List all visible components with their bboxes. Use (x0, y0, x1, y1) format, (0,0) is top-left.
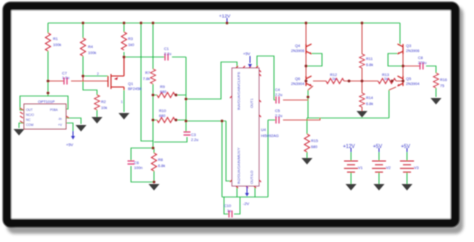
wire IC pin row A (186, 62, 237, 99)
svg-text:R14: R14 (366, 96, 373, 100)
ground below R16 (431, 98, 442, 105)
resistor R9 (157, 92, 175, 97)
wire +12V rail (48, 22, 400, 24)
wire OPT101 -In to ground (66, 118, 81, 124)
svg-text:1k: 1k (384, 77, 388, 81)
svg-text:220u: 220u (418, 61, 426, 65)
junction rail-x141 (140, 22, 143, 25)
capacitor C8 (420, 63, 423, 70)
junction R9 right (175, 94, 178, 97)
wire R4 column (82, 23, 84, 76)
wire R3 column (123, 23, 125, 57)
svg-text:1k: 1k (332, 77, 336, 81)
svg-text:IN2/GUA/GAIN/MUX/Y: IN2/GUA/GAIN/MUX/Y (237, 147, 241, 184)
svg-text:OPT101P: OPT101P (38, 100, 55, 104)
resistor R15 (304, 134, 309, 152)
wire OPT101 right pin1 up (48, 93, 68, 109)
resistor R2 (94, 95, 99, 110)
ground OPT101 COM (14, 129, 25, 136)
wire ladder column x186 (185, 57, 187, 132)
svg-text:R4: R4 (88, 45, 93, 49)
junction rail-Q4 (305, 22, 308, 25)
svg-text:C5: C5 (275, 109, 280, 113)
junction R10-C3 node (185, 120, 188, 123)
capacitor C5 (276, 117, 279, 124)
junction OPT101 bias node (47, 92, 50, 95)
junction R10 right (175, 119, 178, 122)
wire C3 bottom to loop (154, 137, 187, 142)
IC U4 (230, 66, 261, 188)
wire R9 row (153, 94, 186, 96)
svg-text:Q6: Q6 (295, 77, 300, 81)
svg-text:OUT: OUT (26, 108, 33, 112)
wire R15 stub (306, 118, 308, 158)
transistor Q5 (398, 76, 404, 86)
wire Q5 emitter down (388, 90, 390, 118)
svg-text:OUT1: OUT1 (250, 98, 254, 108)
wire C5 left (268, 120, 276, 197)
svg-text:6.8k: 6.8k (158, 164, 165, 168)
svg-text:+12V: +12V (219, 14, 231, 20)
svg-text:R8: R8 (158, 158, 163, 162)
svg-text:Q3: Q3 (406, 44, 411, 48)
junction R9 right bus (185, 98, 188, 101)
svg-text:100k: 100k (53, 43, 61, 47)
wire to OPT101 left pin (20, 96, 48, 110)
svg-text:R9: R9 (160, 85, 165, 89)
wire IC top right to C4 (257, 56, 276, 100)
svg-text:1u: 1u (227, 209, 231, 213)
svg-text:+5V: +5V (401, 144, 411, 150)
transistor Q3 (398, 44, 404, 54)
resistor R7 (150, 69, 155, 84)
svg-text:1k0: 1k0 (128, 43, 134, 47)
svg-text:C10: C10 (224, 204, 231, 208)
svg-text:2N3906: 2N3906 (406, 49, 419, 53)
svg-text:2N3904: 2N3904 (291, 82, 304, 86)
ground below R15 (302, 158, 313, 165)
wire battery V2 stubs (378, 151, 380, 184)
junction Q6 emitter (307, 96, 310, 99)
svg-text:+5V: +5V (66, 142, 74, 147)
svg-text:R15: R15 (311, 139, 318, 143)
resistor R14 (359, 93, 364, 107)
junction R12-R11 (348, 80, 351, 83)
junction rail +12V tap (226, 22, 229, 25)
svg-text:2: 2 (97, 72, 99, 76)
svg-text:-2V: -2V (243, 201, 250, 206)
junction rail-R3 (123, 22, 126, 25)
junction R10 left (152, 119, 155, 122)
svg-text:R7: R7 (145, 71, 150, 75)
junction rail-R11 (361, 22, 364, 25)
junction rail-R7 (152, 22, 155, 25)
svg-text:2.2u: 2.2u (191, 138, 198, 142)
svg-text:C4: C4 (275, 88, 280, 92)
resistor R8 (151, 153, 156, 171)
svg-text:680: 680 (311, 145, 317, 149)
wire C7 net (83, 75, 108, 77)
junction rail-R4 (82, 22, 85, 25)
wire battery V3 stubs (406, 151, 408, 184)
svg-text:+5V: +5V (243, 51, 251, 56)
resistor R3 (121, 32, 126, 50)
svg-text:C8: C8 (418, 56, 423, 60)
wire OPT101 +V pin (66, 123, 73, 131)
wire IC bottom (222, 186, 268, 197)
svg-text:C7: C7 (62, 72, 67, 76)
svg-text:2N3904: 2N3904 (406, 82, 419, 86)
IC U1 OPT101P (20, 100, 69, 129)
svg-text:100n: 100n (134, 166, 142, 170)
resistor R11 (359, 54, 364, 68)
wire Q4 Q6 base column (red) (305, 23, 307, 81)
wire C6 R8 loop (131, 148, 154, 183)
svg-text:V3: V3 (414, 166, 419, 170)
wire R1 column (47, 23, 49, 96)
ground below R8 (149, 184, 160, 191)
svg-text:2N3906: 2N3906 (291, 49, 304, 53)
svg-text:2.2u: 2.2u (164, 52, 171, 56)
wire R11 R14 column (red) (361, 23, 363, 111)
svg-text:+12V: +12V (343, 144, 355, 150)
svg-text:R1: R1 (53, 37, 58, 41)
resistor R16 (433, 73, 438, 88)
wire Q5 emitter lead (red) (389, 87, 396, 90)
capacitor C3 (184, 132, 191, 135)
svg-text:R3: R3 (128, 37, 133, 41)
svg-text:680: 680 (159, 114, 165, 118)
wire IC pin row B (186, 121, 232, 197)
transistor Q4 (306, 44, 312, 54)
svg-text:V1: V1 (358, 166, 363, 170)
wire C4 right lead (red) (283, 99, 308, 101)
wire C8 to R16 (426, 66, 436, 97)
junction R9 left (152, 94, 155, 97)
wire Q6 emitter down (307, 90, 309, 118)
wire Q1 source to ground (123, 90, 125, 112)
svg-text:-In: -In (58, 117, 62, 121)
wire C1 net (124, 56, 186, 58)
wire C5 right lead (red) (283, 118, 320, 120)
svg-text:680: 680 (160, 90, 166, 94)
resistor R4 (80, 38, 85, 56)
svg-text:R2: R2 (101, 100, 106, 104)
resistor R1 (45, 33, 50, 51)
wire Q3 Q5 base column (red) (402, 54, 404, 81)
svg-text:Q1: Q1 (128, 82, 133, 86)
ground mid bus (357, 111, 368, 118)
junction R13-Q5 (391, 80, 394, 83)
junction C6-R8 loop bottom (153, 181, 156, 184)
svg-text:OUT/LO: OUT/LO (250, 170, 254, 184)
wire R2 branch (83, 81, 97, 117)
svg-text:1: 1 (121, 100, 123, 104)
resistor R13 (378, 78, 396, 83)
power -2V below IC (243, 186, 250, 206)
wire battery V1 stubs (350, 151, 352, 184)
wire Q3 emitter from rail (399, 23, 401, 44)
junction Q4 loop (305, 65, 308, 68)
ground below R2 (92, 117, 103, 124)
wire ladder column x153 (152, 23, 154, 148)
capacitor C1 (165, 54, 168, 61)
wire Q4 collector loop (307, 54, 322, 67)
capacitor C10 (229, 211, 232, 218)
svg-text:10k: 10k (101, 106, 107, 110)
junction R11-R13 (361, 80, 364, 83)
svg-text:6.8k: 6.8k (366, 102, 373, 106)
svg-text:+5V: +5V (373, 144, 383, 150)
svg-text:2.2u: 2.2u (275, 114, 282, 118)
junction R3-drain node (123, 56, 126, 59)
wire R13 row (red) (362, 80, 403, 82)
svg-text:P08A: P08A (50, 108, 59, 112)
svg-text:V2: V2 (386, 166, 391, 170)
junction Q3 output node (402, 65, 405, 68)
svg-text:6.8k: 6.8k (366, 63, 373, 67)
wire Q6 collector to R12 (red) (313, 80, 362, 82)
svg-text:C3: C3 (191, 133, 196, 137)
junction Q6 base (305, 80, 308, 83)
svg-text:7.8k: 7.8k (143, 77, 150, 81)
wire Q3 collector loop (388, 54, 402, 67)
transistor Q1 (108, 57, 124, 90)
wire C10 loop (224, 197, 240, 214)
svg-text:NC: NC (26, 118, 31, 122)
svg-text:R16: R16 (440, 78, 447, 82)
power +5V above IC (243, 51, 252, 68)
junction C6-R8 loop top (152, 147, 155, 150)
resistor R10 (157, 117, 175, 122)
svg-text:R11: R11 (366, 57, 373, 61)
capacitor C4 (276, 97, 279, 104)
svg-text:C6: C6 (134, 161, 139, 165)
junction Q5 base (402, 80, 405, 83)
junction x222 branch (221, 120, 224, 123)
svg-text:75: 75 (440, 84, 444, 88)
junction R1-C7 node (47, 80, 50, 83)
svg-text:R10: R10 (159, 109, 166, 113)
power +12V top (219, 14, 231, 24)
capacitor C6 (128, 161, 135, 164)
wire Q6 emitter lead (red) (308, 86, 313, 90)
svg-text:HI5092AG: HI5092AG (261, 134, 279, 138)
power +5V below OPT101 (66, 131, 75, 147)
ground below Q1 (119, 113, 130, 120)
junction R4-gate node (82, 75, 85, 78)
wire bias column x141 (141, 23, 153, 141)
svg-text:INA/GUA/GAIN/CLK/FB: INA/GUA/GAIN/CLK/FB (237, 71, 241, 110)
wire Q1 gate (red) (49, 76, 108, 81)
wire OPT101 COM pin (19, 123, 24, 128)
wire R10 row (153, 119, 186, 121)
svg-text:100k: 100k (88, 51, 96, 55)
svg-text:Q5: Q5 (406, 77, 411, 81)
svg-text:BF245B: BF245B (128, 87, 142, 91)
svg-text:U4: U4 (261, 128, 266, 132)
svg-text:2.2u: 2.2u (275, 93, 282, 97)
svg-text:C1: C1 (164, 47, 169, 51)
svg-text:Q4: Q4 (295, 44, 300, 48)
wire ground bus right (307, 117, 389, 119)
capacitor C7 (64, 78, 67, 85)
transistor Q6 (306, 76, 312, 86)
resistor R12 (326, 78, 344, 83)
wire output node to C8 (red) (403, 65, 420, 67)
svg-text:1.0u: 1.0u (62, 76, 69, 80)
svg-text:COM: COM (26, 123, 34, 127)
ground OPT101 -In (76, 125, 87, 132)
svg-text:NC/O: NC/O (26, 113, 34, 117)
